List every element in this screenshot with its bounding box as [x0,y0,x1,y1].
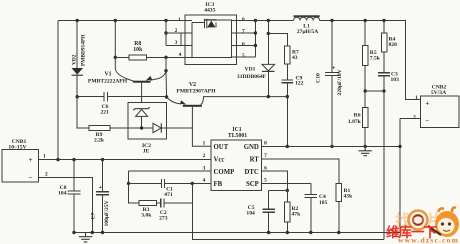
wire COMP [129,170,211,172]
node C8 top junction [72,158,75,161]
transistor V2 emitter arrow [167,97,181,104]
svg-text:R6: R6 [354,113,361,119]
svg-text:1: 1 [203,141,206,147]
svg-text:220μF/10V: 220μF/10V [337,69,343,95]
node output ground junction [398,145,401,148]
node FB tap junction [382,89,385,92]
node C8 bottom junction [72,231,75,234]
wire to C4 [310,183,312,194]
node CNB1 gnd junction [91,231,94,234]
resistor R8 [129,55,147,60]
svg-text:RT: RT [250,157,260,164]
transistor V1 emitter arrow [150,71,166,81]
wire R5 to R6 [364,65,366,107]
node C6 left junction [76,95,79,98]
capacitor C3 [378,73,390,76]
svg-text:OUT: OUT [214,144,229,151]
svg-text:105: 105 [319,200,328,206]
resistor R9 [89,126,110,131]
capacitor C10 [325,72,339,75]
wire V1 base lead [141,83,143,103]
svg-text:2: 2 [203,153,206,159]
svg-text:1: 1 [415,95,418,101]
wire C8 bottom [73,194,75,233]
svg-text:4: 4 [203,178,206,184]
node VD1 top junction [267,19,270,22]
inductor L1 [294,15,320,17]
wire FB net down [383,76,385,240]
svg-text:8: 8 [242,17,245,23]
svg-text:VD1: VD1 [245,67,256,73]
watermark mascot [428,208,459,238]
svg-text:PMBT2222APH: PMBT2222APH [88,79,128,85]
wire C1 to FB [165,182,211,184]
svg-text:273: 273 [159,215,168,221]
wire R4 to C3 [383,52,385,72]
capacitor C2 [161,198,164,207]
svg-text:7.5k: 7.5k [370,56,381,62]
svg-text:2.2k: 2.2k [94,138,105,144]
wire R7 to C9 [286,64,288,80]
node C10 ground junction [330,145,333,148]
svg-text:100μF/25V: 100μF/25V [104,200,110,226]
node comp A [127,182,130,185]
node x115 top junction [114,19,117,22]
node C7 bottom junction [101,231,104,234]
svg-text:www.dzsc.com: www.dzsc.com [398,236,459,244]
node push-pull emitter junction [165,95,168,98]
wire IC3 pin7 [232,32,256,34]
svg-text:V2: V2 [189,82,196,88]
node VD2 top junction [76,19,79,22]
capacitor C6 [104,92,107,102]
svg-text:JE: JE [143,148,150,154]
capacitor C5 [262,209,274,212]
capacitor C9 [282,80,294,83]
diode inside IC2 [153,123,161,132]
node IC3 pin7 junction [254,31,257,34]
wire R3 to C2 [157,202,161,204]
wire R8 left [115,56,129,58]
capacitor C8 [68,191,81,194]
wire comp lower branch left [129,183,140,203]
transistor V1 base bar [133,81,151,83]
node R2 ground junction [286,231,289,234]
svg-text:SCP: SCP [246,181,259,188]
wire V2 collector to ground rail [201,97,287,105]
node gate junction [164,56,167,59]
wire CNB1 pin2 to ground [39,177,93,232]
wire comp lower branch right [164,183,192,203]
svg-text:PMBT2907APH: PMBT2907APH [176,88,216,94]
node DTC-C5 junction [286,189,289,192]
svg-text:3.0k: 3.0k [141,212,152,218]
svg-text:2: 2 [45,172,48,178]
wire C8 top [73,160,75,191]
svg-text:4: 4 [179,52,182,58]
node divider junction [364,89,367,92]
svg-text:8: 8 [264,141,267,147]
wire C5 to ground [268,212,270,232]
diode VD1 [262,64,275,71]
node comp B [191,182,194,185]
wire output rail to CNB2 pin1 [320,21,421,100]
svg-text:2: 2 [413,114,416,120]
wire V2 base lead [192,107,210,147]
node VD1 bottom junction [267,95,270,98]
svg-text:31DDB064F: 31DDB064F [237,74,267,80]
wire V1 collector from rail [115,21,133,82]
wire SCP [262,182,311,184]
zener diode inside IC2 [133,107,149,110]
ground symbol input [79,233,92,242]
node IC2 internal junction [140,126,143,129]
svg-text:7: 7 [242,29,245,35]
connector CNB2 box [421,96,459,127]
node V1 emitter junction [164,69,167,72]
node C10 top junction [330,19,333,22]
wire IC3 pin2 [166,32,192,34]
svg-text:471: 471 [164,192,173,198]
wire snubber net to ground rail [286,97,288,147]
IC3 internal bus [192,20,232,58]
wire C5 connector [269,189,288,191]
wire COMP corner down [128,171,130,183]
wire C7 bottom [102,195,104,233]
wire VD2 anode [76,21,78,69]
wire to C6 [77,96,104,98]
svg-text:COMP: COMP [214,169,235,176]
watermark logo circle [409,211,428,230]
capacitor C4 [305,194,317,197]
wire emitter junction drop [165,71,168,97]
op-amp/MOSFET IC3 box [185,15,237,65]
wire IC3 pins 8-7-6-5 tie [254,21,256,58]
node C7 top junction [101,158,104,161]
wire IC3 pins 1-2-3 tie [165,21,167,46]
node R4 top junction [382,19,385,22]
svg-text:27μH/5A: 27μH/5A [297,29,319,35]
svg-text:5: 5 [264,178,267,184]
wire bottom ground rail [74,232,400,234]
wire V1 emitter riser [165,57,167,70]
wire R2 to ground [286,222,288,233]
wire IC3 pin2-3 bracket [180,33,182,46]
wire R5 top [364,21,366,46]
svg-text:3: 3 [203,166,206,172]
wire left rail down [57,21,59,160]
svg-text:DTC: DTC [244,169,258,176]
svg-text:5: 5 [242,53,245,59]
IC2 box [128,103,166,140]
wire DTC down [262,171,288,190]
svg-text:7: 7 [264,153,267,159]
node R1 ground junction [337,231,340,234]
wire C9 bottom [286,83,288,97]
resistor R6 [363,108,369,128]
wire C10 top [331,21,333,72]
connector CNB1 box [2,150,39,183]
node snubber ground junction [286,145,289,148]
svg-text:10~15V: 10~15V [8,145,26,151]
wire FB rail bottom [192,183,384,239]
resistor R4 [381,33,386,52]
wire R4 top [383,21,385,33]
wire top rail IC3 pin8 to L1 [232,20,294,22]
svg-text:6: 6 [242,42,245,48]
node snubber junction [267,32,270,35]
svg-text:VD2: VD2 [72,54,78,65]
resistor R2 [285,202,291,222]
svg-text:+: + [425,99,429,107]
wire C4 to ground [310,197,312,232]
capacitor C1 [161,179,164,188]
wire snubber branch [268,33,287,45]
node IC3 pin6 junction [254,44,257,47]
node IC3 pin2 junction [164,31,167,34]
wire RT to R1 [262,159,339,184]
svg-text:−: − [29,174,33,182]
wire IC3 pin6 [232,45,256,47]
wire VD1 anode [267,21,269,65]
svg-text:43: 43 [292,55,298,61]
wire R8 right / IC3 pin4 gate wire [147,56,193,58]
svg-text:−: − [425,116,429,124]
svg-text:6: 6 [264,166,267,172]
wire ground rail [262,145,401,147]
svg-text:5V/3A: 5V/3A [431,90,446,96]
wire to C1 [129,182,162,184]
svg-text:C10: C10 [316,73,322,83]
svg-text:Vcc: Vcc [214,157,225,164]
svg-text:1.87k: 1.87k [348,119,362,125]
wire R1 to ground [338,202,340,233]
svg-text:122: 122 [295,81,304,87]
svg-text:V1: V1 [104,72,111,78]
node R6 ground junction [364,145,367,148]
wire C5 top [268,190,270,209]
wire IC3 pin3 [166,45,192,47]
wire divider tap [365,90,384,92]
resistor R3 [139,201,157,206]
wire IC3 pin5 [232,56,256,58]
resistor R5 [363,45,369,65]
svg-text:+: + [332,64,336,71]
resistor R1 [336,184,341,202]
wire CNB2 gnd down [399,119,401,233]
node C4 ground junction [309,231,312,234]
wire R9 to IC2 diode [110,127,153,129]
node switch gnd corner [286,95,289,98]
node C5 ground junction [267,231,270,234]
svg-text:FB: FB [214,181,223,188]
wire C10 bottom [331,76,333,147]
transistor V2 base bar [183,105,202,107]
wire VD1 cathode [267,71,269,96]
svg-text:10k: 10k [133,47,143,53]
node R5 top junction [364,19,367,22]
node IC3 pin8 junction [254,19,257,22]
op-amp U IC1 TL5001 box [211,140,262,191]
svg-text:4435: 4435 [204,7,215,13]
wire to R2 [286,190,288,202]
wire CNB1 pin1 / Vcc rail [39,159,211,161]
diode VD2 [72,68,84,75]
wire CNB2 pin2 [400,118,421,120]
svg-text:PMBD914PH: PMBD914PH [81,34,87,66]
svg-text:104: 104 [58,190,67,196]
node IC3 pin1 junction [164,19,167,22]
wire IC2 output [161,127,192,129]
wire zener to junction [141,116,143,128]
svg-text:1: 1 [178,17,181,23]
node R8 left junction [114,56,117,59]
MOSFET inside IC3 [205,19,207,28]
wire C7 top [102,160,104,192]
wire VD2 cathode to R9 [77,75,89,128]
svg-text:1: 1 [43,154,46,160]
wire top input rail [58,20,192,22]
node left rail bottom junction [56,158,59,161]
resistor R7 [285,46,290,64]
ground symbol output [359,146,372,155]
svg-text:104: 104 [246,210,255,216]
svg-text:GND: GND [244,144,259,151]
svg-text:103: 103 [391,77,400,83]
wire C6 to emitter junction [108,96,167,98]
svg-text:C7: C7 [91,212,97,219]
svg-text:43k: 43k [344,194,354,200]
svg-text:221: 221 [101,109,110,115]
svg-text:47k: 47k [292,212,302,218]
svg-text:+: + [29,156,33,164]
capacitor C7 [96,192,109,195]
svg-text:+: + [99,184,103,191]
wire R6 to ground [364,127,366,146]
svg-text:820: 820 [389,42,398,48]
svg-text:TL5001: TL5001 [228,133,247,139]
